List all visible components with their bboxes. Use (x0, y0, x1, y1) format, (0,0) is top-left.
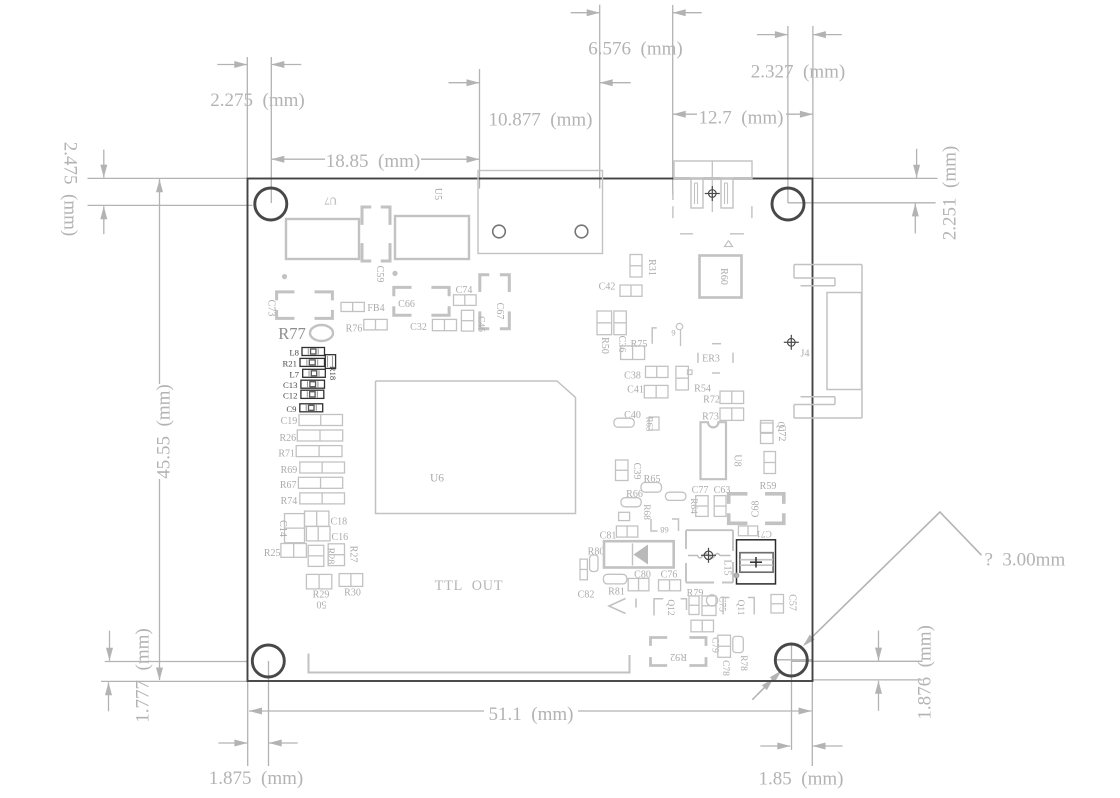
svg-text:R65: R65 (644, 474, 661, 485)
svg-text:ER3: ER3 (702, 354, 720, 365)
svg-text:R68: R68 (641, 504, 651, 520)
svg-text:R27: R27 (348, 546, 359, 563)
svg-text:U5: U5 (432, 188, 443, 200)
svg-text:C75: C75 (717, 596, 727, 612)
svg-text:R18: R18 (328, 366, 338, 380)
svg-text:C13: C13 (283, 380, 297, 390)
svg-text:C18: C18 (331, 517, 348, 528)
svg-text:R50: R50 (599, 337, 610, 354)
svg-text:R31: R31 (646, 259, 657, 276)
svg-text:C39: C39 (631, 463, 642, 480)
svg-text:1.875 (mm): 1.875 (mm) (209, 768, 303, 789)
svg-text:R69: R69 (281, 465, 298, 476)
svg-text:51.1 (mm): 51.1 (mm) (489, 704, 574, 725)
svg-text:C16: C16 (332, 532, 349, 543)
svg-text:6: 6 (671, 328, 675, 338)
svg-text:C14: C14 (277, 520, 288, 537)
svg-text:68: 68 (660, 525, 669, 535)
svg-text:C67: C67 (494, 303, 505, 320)
svg-text:6.576 (mm): 6.576 (mm) (588, 39, 682, 60)
svg-text:C36: C36 (616, 336, 627, 353)
svg-text:C12: C12 (283, 390, 297, 400)
svg-text:C38: C38 (624, 371, 641, 382)
svg-text:R67: R67 (280, 480, 297, 491)
svg-text:1.85 (mm): 1.85 (mm) (759, 769, 844, 790)
svg-text:R71: R71 (278, 449, 295, 460)
svg-text:2.251 (mm): 2.251 (mm) (940, 146, 961, 240)
svg-text:Q11: Q11 (735, 599, 745, 615)
svg-text:C42: C42 (599, 282, 616, 293)
svg-text:C41: C41 (627, 385, 644, 396)
svg-text:R81: R81 (608, 587, 625, 598)
svg-text:2.275 (mm): 2.275 (mm) (210, 90, 304, 111)
svg-text:R77: R77 (278, 324, 306, 343)
svg-text:R54: R54 (694, 384, 711, 395)
svg-text:50: 50 (317, 599, 327, 610)
svg-text:L8: L8 (289, 348, 299, 358)
svg-text:R72: R72 (703, 395, 720, 406)
svg-text:C72: C72 (776, 425, 787, 442)
svg-text:12.7 (mm): 12.7 (mm) (699, 108, 784, 129)
svg-text:C9: C9 (286, 404, 296, 414)
svg-text:U6: U6 (430, 473, 444, 485)
svg-text:45.55 (mm): 45.55 (mm) (154, 384, 175, 478)
svg-text:U7: U7 (324, 195, 336, 206)
svg-text:C40: C40 (624, 410, 641, 421)
svg-text:R73: R73 (702, 412, 719, 423)
svg-text:R92: R92 (670, 651, 687, 662)
svg-text:Q12: Q12 (665, 599, 675, 616)
svg-text:C71: C71 (756, 528, 772, 538)
svg-text:R78: R78 (738, 655, 748, 671)
svg-text:C73: C73 (266, 300, 277, 317)
svg-text:C81: C81 (600, 531, 617, 542)
svg-text:C59: C59 (374, 266, 385, 283)
svg-text:FB4: FB4 (367, 303, 384, 314)
svg-text:J4: J4 (801, 349, 810, 360)
svg-text:L15: L15 (722, 559, 733, 575)
svg-text:C32: C32 (410, 322, 427, 333)
svg-text:TTL OUT: TTL OUT (435, 578, 504, 594)
svg-text:R60: R60 (718, 268, 729, 285)
svg-text:2.475 (mm): 2.475 (mm) (60, 142, 81, 236)
svg-text:2.327 (mm): 2.327 (mm) (751, 62, 845, 83)
svg-text:R25: R25 (264, 548, 281, 559)
svg-text:U8: U8 (732, 454, 743, 466)
svg-text:C19: C19 (281, 416, 298, 427)
svg-text:10.877 (mm): 10.877 (mm) (489, 110, 593, 131)
svg-text:C78: C78 (720, 660, 730, 676)
svg-text:18.85 (mm): 18.85 (mm) (326, 151, 420, 172)
svg-text:? 3.00mm: ? 3.00mm (985, 550, 1066, 571)
svg-text:R28: R28 (325, 548, 336, 565)
svg-text:R21: R21 (283, 358, 297, 368)
svg-text:C66: C66 (398, 299, 415, 310)
svg-text:1.876 (mm): 1.876 (mm) (915, 625, 936, 719)
svg-text:R76: R76 (346, 324, 363, 335)
svg-text:1.777 (mm): 1.777 (mm) (133, 628, 154, 722)
svg-text:C77: C77 (692, 485, 709, 496)
svg-text:L7: L7 (289, 369, 299, 379)
svg-text:C46: C46 (476, 316, 486, 332)
svg-text:R30: R30 (344, 588, 361, 599)
svg-text:R26: R26 (280, 433, 297, 444)
svg-text:R59: R59 (760, 481, 777, 492)
svg-text:R74: R74 (281, 496, 298, 507)
svg-text:C57: C57 (787, 594, 798, 611)
svg-text:C82: C82 (578, 590, 595, 601)
svg-text:C68: C68 (751, 501, 762, 518)
svg-text:C76: C76 (661, 570, 678, 581)
